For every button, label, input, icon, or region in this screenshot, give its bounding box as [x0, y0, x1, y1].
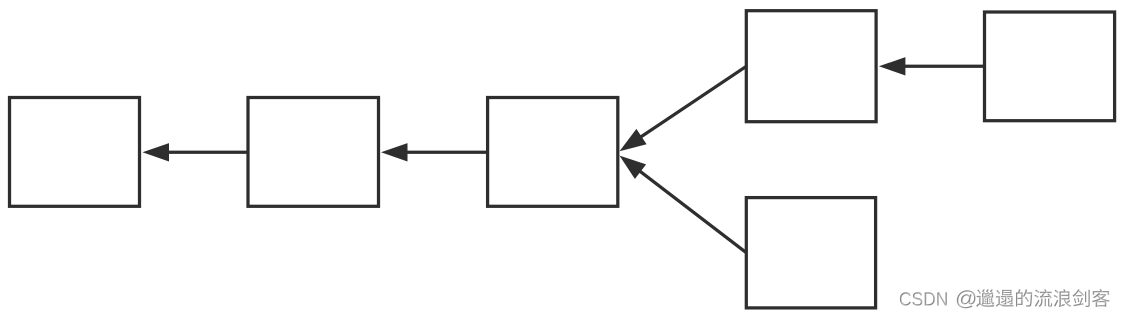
- watermark CSDN @邋遢的流浪剑客: [900, 289, 1111, 309]
- node box4: [746, 11, 876, 122]
- arrow box2 to box1: [143, 143, 248, 161]
- node box1: [10, 98, 140, 207]
- node box6: [746, 198, 875, 308]
- arrow box6 to box3: [620, 156, 747, 253]
- arrow box4 to box3: [620, 66, 747, 151]
- node box3: [488, 98, 618, 207]
- node box2: [248, 98, 379, 207]
- arrow box3 to box2: [381, 143, 488, 161]
- node box5: [985, 12, 1115, 121]
- arrow box5 to box4: [879, 57, 985, 75]
